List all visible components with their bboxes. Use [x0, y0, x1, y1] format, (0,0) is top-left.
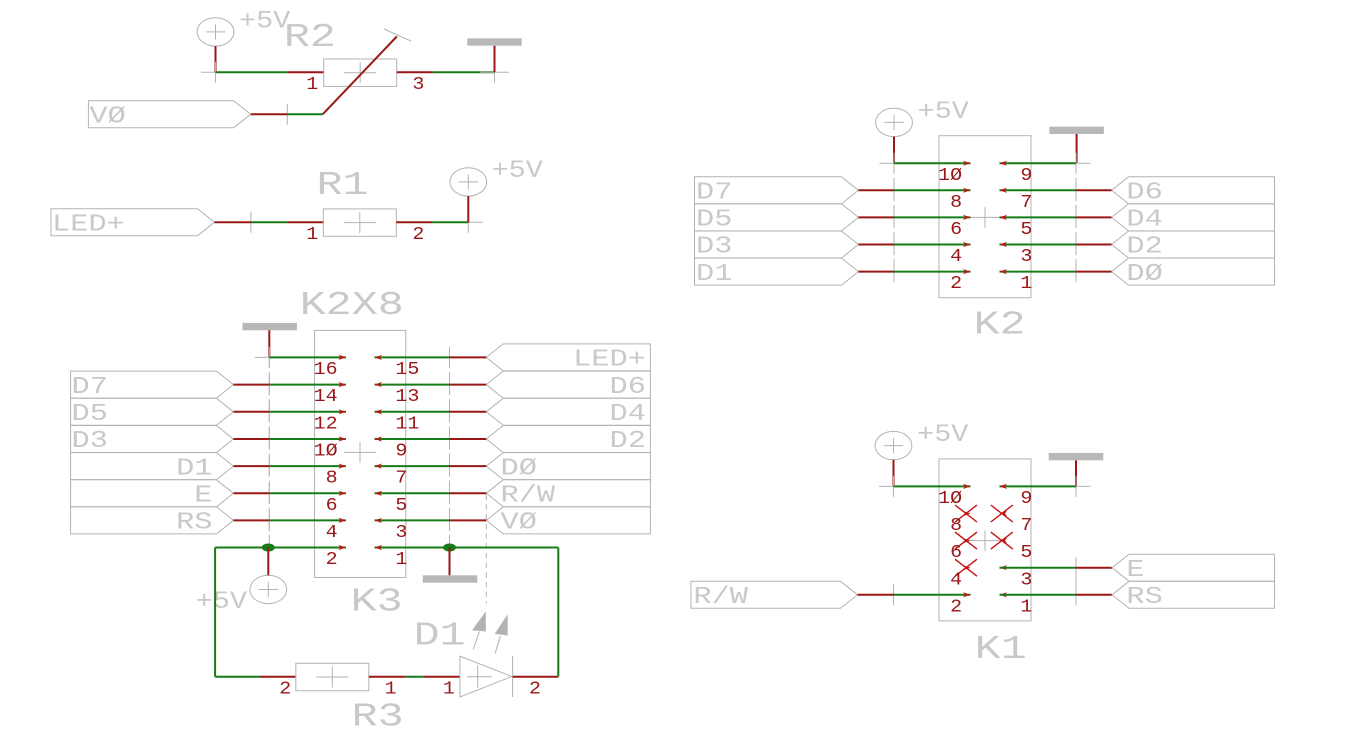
- wire net +5V to K1.10: [894, 485, 971, 487]
- svg-text:4: 4: [326, 522, 338, 543]
- pin cross node V0: [273, 113, 302, 115]
- wire net K3 right row 15: [375, 356, 450, 358]
- svg-text:1Ø: 1Ø: [938, 488, 962, 509]
- svg-text:2: 2: [950, 596, 962, 617]
- svg-text:9: 9: [395, 441, 407, 462]
- wire net to K3 left row 14: [269, 384, 346, 386]
- pin K1.7 unconnected: [1000, 511, 1008, 516]
- pin arrow K2.3: [1000, 242, 1008, 247]
- wire net to K3 left row 12: [269, 411, 346, 413]
- svg-text:1: 1: [306, 224, 318, 245]
- svg-text:11: 11: [395, 413, 419, 434]
- pin leg D4 flag (K2): [1076, 216, 1112, 218]
- wire net R3.1 to D1.1: [405, 676, 424, 678]
- pin arrow K3.16: [338, 355, 346, 360]
- svg-text:2: 2: [279, 678, 291, 699]
- pin leg E flag: [1076, 567, 1112, 569]
- wire net to K3 left row 6: [269, 492, 346, 494]
- pin leg D2 flag (K2): [1076, 244, 1112, 246]
- svg-text:8: 8: [950, 515, 962, 536]
- wire net K3 right row 5: [375, 492, 450, 494]
- wire net to K3 left row 8: [269, 465, 346, 467]
- svg-text:3: 3: [1020, 246, 1032, 267]
- pin leg R2.3: [397, 71, 433, 73]
- pin arrow K3.2: [338, 545, 346, 550]
- flag D0 (K3 right): [486, 453, 650, 480]
- svg-text:D6: D6: [1126, 180, 1162, 207]
- dashed line E-RS column: [1075, 578, 1077, 584]
- svg-text:D7: D7: [72, 374, 108, 401]
- flag D5 (K3 left): [71, 398, 234, 425]
- svg-text:DØ: DØ: [1126, 261, 1162, 288]
- svg-text:R/W: R/W: [501, 483, 556, 510]
- svg-text:D3: D3: [72, 428, 108, 455]
- svg-text:+5V: +5V: [239, 7, 290, 36]
- pin cross column K3 left: [255, 356, 284, 358]
- pin leg D5 flag: [233, 411, 269, 413]
- flag LED+ (left): [51, 209, 215, 236]
- svg-text:D1: D1: [696, 261, 732, 288]
- wire net K2 right row 3: [1000, 244, 1077, 246]
- pin leg D1 flag: [233, 465, 269, 467]
- wire net +5V loop left/bottom: [214, 548, 216, 677]
- wire net +5V row to K3.2: [215, 547, 346, 549]
- ground symbol (K3 bottom): [449, 548, 451, 576]
- svg-text:7: 7: [395, 468, 407, 489]
- pin arrow K1.3: [1000, 565, 1008, 570]
- pin arrow K2.6: [963, 215, 971, 220]
- connector K2 body: [939, 136, 1031, 298]
- svg-text:K2X8: K2X8: [300, 287, 404, 325]
- svg-text:1: 1: [443, 678, 455, 699]
- pin arrow K2.7: [1000, 188, 1008, 193]
- pin leg D3 flag (K2): [858, 244, 894, 246]
- pin cross column K2 left: [880, 162, 909, 164]
- connector K1 body: [939, 459, 1031, 621]
- svg-text:2: 2: [412, 224, 424, 245]
- pin leg D5 flag (K2): [858, 216, 894, 218]
- wire net GND to K3.16: [269, 356, 346, 358]
- svg-text:D4: D4: [1126, 207, 1162, 234]
- svg-text:DØ: DØ: [501, 455, 537, 482]
- pin arrow K3.13: [375, 382, 383, 387]
- power +5V symbol (R2 section): [197, 18, 234, 46]
- pin arrow K3.7: [375, 464, 383, 469]
- svg-text:RS: RS: [176, 510, 212, 537]
- pin arrow K3.1: [375, 545, 383, 550]
- svg-text:7: 7: [1020, 192, 1032, 213]
- wire net K2 left row 2: [894, 271, 971, 273]
- wire net LED+ to R1.1: [251, 221, 287, 223]
- pin arrow K3.10: [338, 436, 346, 441]
- svg-text:VØ: VØ: [501, 510, 537, 537]
- pin leg D7 flag: [233, 384, 269, 386]
- pin leg D6 flag (K2): [1076, 189, 1112, 191]
- pin arrow K3.5: [375, 491, 383, 496]
- connector K3 body: [315, 330, 406, 577]
- flag V0 (K3 right): [486, 507, 650, 534]
- wire net K2 right row 7: [1000, 189, 1077, 191]
- svg-text:15: 15: [395, 359, 419, 380]
- pin leg D7 flag (K2): [858, 189, 894, 191]
- svg-text:D2: D2: [610, 428, 646, 455]
- flag RS (K1 right): [1112, 581, 1275, 608]
- svg-text:2: 2: [326, 549, 338, 570]
- wire net K3 right row 13: [375, 384, 450, 386]
- pin arrow K1.9: [1000, 484, 1008, 489]
- pin cross node R/W: [879, 594, 908, 596]
- flag R/W (K3 right): [486, 480, 650, 507]
- flag D4 (K2 right): [1112, 204, 1275, 231]
- svg-text:7: 7: [1020, 515, 1032, 536]
- flag D3 (K2 left): [695, 231, 859, 258]
- flag D6 (K2 right): [1112, 177, 1275, 204]
- pin leg R/W flag (K3 right): [450, 492, 487, 494]
- pin arrow K2.1: [1000, 269, 1008, 274]
- flag D5 (K2 left): [695, 204, 859, 231]
- pin arrow K3.4: [338, 518, 346, 523]
- svg-text:1Ø: 1Ø: [938, 165, 962, 186]
- svg-text:D2: D2: [1126, 234, 1162, 261]
- resistor R2 wiper arrow: [323, 37, 397, 115]
- pin leg D3 flag: [233, 438, 269, 440]
- svg-text:3: 3: [412, 74, 424, 95]
- wire net K2 left row 4: [894, 244, 971, 246]
- wire net K3 right row 9: [375, 438, 450, 440]
- wire net R/W to K1.2: [894, 594, 971, 596]
- wire net K3 right row 11: [375, 411, 450, 413]
- svg-text:+5V: +5V: [917, 420, 968, 449]
- wire net K2 left row 6: [894, 216, 971, 218]
- svg-text:9: 9: [1020, 488, 1032, 509]
- pin leg LED+ flag: [215, 221, 251, 223]
- svg-text:8: 8: [326, 468, 338, 489]
- svg-text:E: E: [194, 483, 212, 510]
- svg-text:14: 14: [314, 386, 338, 407]
- svg-text:+5V: +5V: [492, 156, 543, 185]
- svg-text:K3: K3: [351, 584, 403, 622]
- svg-text:D4: D4: [610, 401, 646, 428]
- svg-text:E: E: [1126, 557, 1144, 584]
- pin arrow K2.4: [963, 242, 971, 247]
- pin leg D1.1: [424, 676, 460, 678]
- flag D7 (K3 left): [71, 371, 234, 398]
- svg-text:R2: R2: [284, 19, 336, 57]
- svg-text:D5: D5: [72, 401, 108, 428]
- flag E (K1 right): [1112, 554, 1275, 581]
- svg-text:+5V: +5V: [918, 97, 969, 126]
- pin leg E flag: [233, 492, 269, 494]
- dashed line K3 left column: [268, 357, 270, 547]
- svg-text:D7: D7: [696, 180, 732, 207]
- svg-text:6: 6: [950, 219, 962, 240]
- wire net +5V to R2.1: [216, 71, 288, 73]
- pin arrow K3.14: [338, 382, 346, 387]
- wire net K3 right row 7: [375, 465, 450, 467]
- pin leg D6 flag (K3 right): [450, 384, 487, 386]
- svg-text:12: 12: [314, 413, 338, 434]
- wire net to K3 left row 4: [269, 519, 346, 521]
- pin leg V0 flag (K3 right): [450, 519, 487, 521]
- resistor R1 body: [323, 209, 396, 236]
- resistor R3 body: [296, 663, 369, 690]
- wire net K2 left row 10: [894, 162, 971, 164]
- wire net K2 left row 8: [894, 189, 971, 191]
- ground symbol (K2): [1049, 127, 1104, 134]
- svg-text:6: 6: [950, 542, 962, 563]
- svg-text:R1: R1: [317, 167, 369, 205]
- pin arrow K3.12: [338, 409, 346, 414]
- pin arrow K3.8: [338, 464, 346, 469]
- svg-text:13: 13: [395, 386, 419, 407]
- pin cross column K3 right: [435, 356, 464, 358]
- wire net K2 right row 9: [1000, 162, 1077, 164]
- pin arrow K3.11: [375, 409, 383, 414]
- flag D6 (K3 right): [486, 371, 650, 398]
- svg-text:D5: D5: [696, 207, 732, 234]
- pin cross node E: [1062, 567, 1091, 569]
- flag D2 (K3 right): [486, 426, 650, 453]
- pin arrow K2.2: [963, 269, 971, 274]
- wire net K2 right row 1: [1000, 271, 1077, 273]
- pin arrow K1.10: [963, 484, 971, 489]
- svg-text:8: 8: [950, 192, 962, 213]
- pin leg R1.2: [396, 221, 432, 223]
- pin cross node GND/R2: [480, 71, 509, 73]
- wire net loop right: [557, 548, 559, 677]
- pin arrow K3.6: [338, 491, 346, 496]
- flag V0 (top left): [88, 101, 250, 128]
- wire net K3.1 to LED loop: [375, 547, 559, 549]
- pin arrow K2.5: [1000, 215, 1008, 220]
- wire net V0 to wiper: [287, 113, 323, 115]
- svg-text:3: 3: [1020, 569, 1032, 590]
- svg-text:+5V: +5V: [196, 587, 247, 616]
- svg-text:1Ø: 1Ø: [314, 441, 338, 462]
- pin cross node RS: [1062, 594, 1091, 596]
- pin cross node +5V/R2: [201, 71, 230, 73]
- svg-text:1: 1: [395, 549, 407, 570]
- pin leg R1.1: [287, 221, 324, 223]
- pin leg D2 flag (K3 right): [450, 438, 487, 440]
- pin leg R3.2: [260, 676, 296, 678]
- dashed line K3 right column: [449, 357, 451, 547]
- flag D4 (K3 right): [486, 398, 650, 425]
- svg-text:1: 1: [1020, 596, 1032, 617]
- pin leg R/W flag: [858, 594, 894, 596]
- svg-text:K2: K2: [974, 307, 1026, 345]
- pin K1.6 unconnected: [963, 538, 971, 543]
- flag D3 (K3 left): [71, 426, 234, 453]
- pin arrow K3.9: [375, 436, 383, 441]
- svg-text:2: 2: [529, 678, 541, 699]
- flag D2 (K2 right): [1112, 231, 1275, 258]
- svg-text:5: 5: [1020, 219, 1032, 240]
- pin arrow K2.10: [963, 161, 971, 166]
- pin arrow K2.9: [1000, 161, 1008, 166]
- svg-text:3: 3: [395, 522, 407, 543]
- svg-text:D1: D1: [414, 618, 466, 656]
- svg-text:5: 5: [395, 495, 407, 516]
- pin arrow K2.8: [963, 188, 971, 193]
- svg-text:LED+: LED+: [573, 347, 646, 374]
- wire net RS to K1.1: [1000, 594, 1077, 596]
- flag E (K3 left): [71, 480, 234, 507]
- svg-text:LED+: LED+: [52, 211, 125, 238]
- led D1 light arrows: [472, 611, 486, 631]
- pin leg D1 flag (K2): [858, 271, 894, 273]
- flag D7 (K2 left): [695, 177, 859, 204]
- pin cross node GND/K1: [1062, 485, 1091, 487]
- svg-text:1: 1: [385, 678, 397, 699]
- pin leg RS flag: [1076, 594, 1112, 596]
- wire net K3 right row 3: [375, 519, 450, 521]
- pin cross node +5V/K1: [879, 485, 908, 487]
- svg-text:16: 16: [314, 359, 338, 380]
- svg-text:RS: RS: [1126, 584, 1162, 611]
- svg-text:1: 1: [306, 74, 318, 95]
- junction node +5V (K3.2): [262, 544, 275, 552]
- pin leg D1.2: [513, 676, 559, 678]
- svg-text:5: 5: [1020, 542, 1032, 563]
- dashed line K2 right column: [1075, 163, 1077, 271]
- svg-text:4: 4: [950, 569, 962, 590]
- pin leg R2.1: [288, 71, 325, 73]
- pin leg LED+ flag (K3 right): [450, 356, 487, 358]
- power +5V symbol (K1): [875, 431, 912, 459]
- pin leg D4 flag (K3 right): [450, 411, 487, 413]
- flag D1 (K2 left): [695, 258, 859, 285]
- power +5V symbol (K3 bottom): [267, 548, 269, 577]
- pin leg D0 flag (K3 right): [450, 465, 487, 467]
- pin cross node +5V/R1: [454, 221, 483, 223]
- wire net GND to R2.3: [433, 71, 495, 73]
- pin K1.8 unconnected: [963, 511, 971, 516]
- svg-text:R/W: R/W: [693, 584, 748, 611]
- wire net GND to K1.9: [1000, 485, 1077, 487]
- flag D0 (K2 right): [1112, 258, 1275, 285]
- pin arrow K1.2: [963, 592, 971, 597]
- junction node GND (K3.1): [443, 544, 456, 552]
- svg-text:K1: K1: [975, 631, 1027, 669]
- pin leg RS flag: [233, 519, 269, 521]
- pin cross column K2 right: [1062, 162, 1091, 164]
- svg-text:9: 9: [1020, 165, 1032, 186]
- svg-text:6: 6: [326, 495, 338, 516]
- ground symbol (K1): [1049, 453, 1104, 460]
- wire net to K3 left row 10: [269, 438, 346, 440]
- wire net +5V to R1.2: [432, 221, 468, 223]
- svg-text:1: 1: [1020, 273, 1032, 294]
- svg-text:D1: D1: [176, 455, 212, 482]
- pin leg D0 flag (K2): [1076, 271, 1112, 273]
- svg-text:2: 2: [950, 273, 962, 294]
- pin arrow K3.3: [375, 518, 383, 523]
- flag LED+ (K3 right): [486, 344, 650, 371]
- pin K1.5 unconnected: [1000, 538, 1008, 543]
- pin leg V0 flag: [251, 113, 287, 115]
- dashed line V0 to D1 LED: [485, 495, 487, 604]
- svg-text:4: 4: [950, 246, 962, 267]
- flag R/W (K1 left): [691, 581, 858, 608]
- power +5V symbol (K2): [876, 108, 913, 136]
- svg-text:D3: D3: [696, 234, 732, 261]
- pin cross node LED+: [236, 221, 265, 223]
- pin arrow K3.15: [375, 355, 383, 360]
- led D1 body: [460, 656, 512, 697]
- power +5V symbol (R1 section): [450, 168, 487, 196]
- ground symbol (K3 top): [242, 323, 297, 330]
- resistor R2 body: [324, 59, 397, 86]
- svg-text:D6: D6: [610, 374, 646, 401]
- pin arrow K1.1: [1000, 592, 1008, 597]
- flag RS (K3 left): [71, 507, 234, 534]
- dashed line K2 left column: [893, 163, 895, 271]
- flag D1 (K3 left): [71, 453, 234, 480]
- svg-text:VØ: VØ: [89, 103, 125, 130]
- wire net K2 right row 5: [1000, 216, 1077, 218]
- pin K1.4 unconnected: [963, 565, 971, 570]
- ground symbol (R2 section): [467, 38, 522, 45]
- pin leg R3.1: [369, 676, 406, 678]
- svg-text:R3: R3: [352, 699, 404, 737]
- wire net E to K1.3: [1000, 567, 1077, 569]
